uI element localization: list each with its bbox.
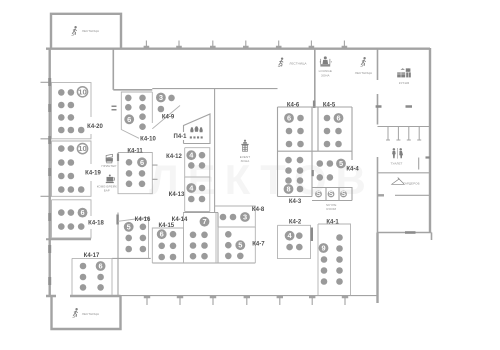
badge 3 K4-9	[156, 93, 166, 103]
label K4-12	[166, 154, 182, 160]
label K4-14	[172, 217, 188, 223]
svg-text:S: S	[341, 189, 346, 198]
hanger icon	[392, 178, 405, 184]
label skype room	[326, 203, 337, 211]
svg-text:К4-13: К4-13	[169, 192, 185, 198]
kitchen icon	[397, 68, 411, 77]
label K4-20	[87, 124, 103, 130]
label K4-18	[88, 220, 104, 226]
svg-text:ЗОНА: ЗОНА	[321, 73, 330, 77]
badge 6 K4-5	[334, 113, 344, 123]
label coffee bar	[97, 185, 117, 193]
room K4-6/K4-5/K4-3/K4-4 walls	[278, 107, 353, 201]
desk block K4-18	[52, 200, 92, 238]
wall wing left x377	[377, 48, 379, 303]
printer icon	[106, 154, 113, 163]
label K4-5	[323, 103, 336, 109]
desk block K4-1	[318, 224, 351, 295]
stairs icon hall 2	[360, 57, 365, 66]
desk block K4-16	[118, 217, 149, 258]
svg-text:5: 5	[127, 222, 131, 231]
wall corridor vertical x113	[112, 48, 114, 90]
badge 5 K4-7	[235, 240, 245, 250]
window ticks bottom wall	[144, 296, 348, 305]
svg-text:К4-5: К4-5	[323, 103, 336, 109]
desk block K4-17	[72, 258, 112, 295]
svg-text:БАР: БАР	[104, 189, 110, 193]
desk block K4-6 dots	[286, 115, 304, 148]
event zone icon	[241, 140, 248, 152]
badge 6 K4-6	[284, 113, 294, 123]
desk block K4-19	[52, 141, 92, 196]
svg-text:3: 3	[159, 93, 163, 102]
label K4-3	[289, 199, 302, 205]
svg-text:5: 5	[339, 159, 343, 168]
label toilet	[390, 161, 402, 165]
door marks near K4-20	[112, 106, 117, 110]
wall outer right	[429, 48, 431, 233]
skype badge S1	[315, 189, 322, 198]
badge 9 K4-1	[319, 243, 329, 253]
P4-1 seat squares	[190, 136, 203, 138]
wall x118 with door stub	[117, 213, 119, 296]
skype badge S3	[340, 189, 347, 198]
label lestnica top-left	[82, 29, 99, 33]
label K4-11	[127, 149, 143, 155]
coffee bar icon	[106, 175, 115, 184]
room stairs top-left outline	[51, 14, 121, 48]
label lestnica hall 1	[289, 62, 306, 66]
label K4-9	[162, 114, 175, 120]
svg-text:ЛЕСТНИЦА: ЛЕСТНИЦА	[289, 62, 306, 66]
label lestnica hall 2	[355, 71, 372, 75]
svg-text:6: 6	[80, 208, 84, 217]
desk block K4-4 dots	[317, 160, 334, 181]
desk block K4-5 dots	[324, 115, 342, 148]
svg-text:9: 9	[321, 244, 325, 253]
badge 4 K4-12	[186, 150, 196, 160]
desk block K4-14	[184, 213, 217, 264]
svg-text:К4-8: К4-8	[252, 207, 265, 213]
svg-text:6: 6	[127, 115, 131, 124]
wall event zone vertical x214.6	[214, 89, 216, 213]
label cloakroom	[403, 182, 419, 186]
desk block K4-15	[152, 228, 183, 263]
svg-text:6: 6	[140, 158, 144, 167]
P4-1 room outline	[184, 114, 211, 144]
svg-text:К4-19: К4-19	[85, 171, 101, 177]
label K4-17	[84, 253, 100, 259]
label lounge zone	[319, 69, 332, 77]
label P4-1	[174, 134, 188, 140]
svg-text:6: 6	[160, 230, 164, 239]
wall corridor x314	[313, 48, 316, 108]
wall y263	[152, 262, 255, 264]
desk block K4-8	[215, 206, 256, 227]
label kitchen	[399, 81, 410, 85]
svg-text:К4-2: К4-2	[289, 220, 302, 226]
svg-text:К4-9: К4-9	[162, 114, 175, 120]
desk block K4-3 dots	[285, 157, 303, 193]
wall outer left	[49, 48, 51, 296]
label K4-2	[289, 220, 302, 226]
svg-text:К4-17: К4-17	[84, 253, 100, 259]
P4-1 people icon	[190, 126, 203, 132]
badge 7 K4-14	[200, 217, 210, 227]
label K4-13	[169, 192, 185, 198]
kitchen wall stubs y106.5	[376, 105, 412, 108]
wc man and woman icons	[392, 148, 403, 159]
svg-text:К4-18: К4-18	[88, 220, 104, 226]
svg-text:5: 5	[238, 241, 242, 250]
svg-text:К4-7: К4-7	[252, 242, 265, 248]
wall cloakroom bottom y195.3	[378, 194, 431, 196]
svg-text:6: 6	[336, 114, 340, 123]
svg-text:К4-10: К4-10	[140, 137, 156, 143]
svg-text:ТУАЛЕТ: ТУАЛЕТ	[390, 161, 402, 165]
badge 5 K4-16	[124, 222, 134, 232]
svg-text:S: S	[316, 189, 321, 198]
lounge zone icon	[320, 56, 332, 66]
wall bottom thick	[46, 295, 121, 297]
svg-text:S: S	[329, 189, 334, 198]
toilet door	[419, 158, 430, 170]
skype room partitions	[326, 188, 339, 201]
desk block K4-9	[152, 95, 180, 129]
desk block K4-10	[121, 92, 152, 138]
label K4-19	[85, 171, 101, 177]
wall y258.4	[112, 257, 151, 259]
svg-text:ROOM: ROOM	[326, 207, 336, 211]
label K4-10	[140, 137, 156, 143]
label printer	[101, 164, 116, 168]
wall bottom thin y295.5	[121, 295, 378, 297]
svg-text:К4-1: К4-1	[326, 220, 339, 226]
wall main top	[46, 48, 430, 50]
svg-text:К4-12: К4-12	[166, 154, 182, 160]
label event zone	[240, 155, 251, 163]
room stairs bottom-left outline	[52, 296, 121, 329]
skype badge S2	[328, 189, 335, 198]
label lestnica bottom-left	[82, 312, 99, 316]
svg-text:К4-20: К4-20	[87, 124, 103, 130]
svg-text:П4-1: П4-1	[174, 134, 188, 140]
desk block K4-12	[185, 148, 210, 177]
desk block K4-20	[52, 83, 92, 139]
stairs icon bottom-left	[72, 308, 77, 317]
svg-text:К4-4: К4-4	[346, 167, 359, 173]
badge 3 K4-8	[240, 212, 250, 222]
svg-text:7: 7	[202, 217, 206, 226]
label K4-7	[252, 242, 265, 248]
wall y212.5	[183, 212, 218, 214]
window ticks top wall	[144, 41, 348, 49]
desk block K4-11	[118, 153, 158, 194]
svg-text:ЛЕСТНИЦА: ЛЕСТНИЦА	[355, 71, 372, 75]
label K4-1	[326, 220, 339, 226]
svg-text:ЛЕСТНИЦА: ЛЕСТНИЦА	[82, 312, 99, 316]
svg-text:ЛЕСТНИЦА: ЛЕСТНИЦА	[82, 29, 99, 33]
svg-text:КУХНЯ: КУХНЯ	[399, 81, 410, 85]
badge 6 K4-11	[137, 157, 147, 167]
desk block K4-7	[218, 227, 255, 263]
svg-text:ПРИНТЕР: ПРИНТЕР	[101, 164, 116, 168]
svg-text:ГАРДЕРОБ: ГАРДЕРОБ	[403, 182, 419, 186]
wall toilet top y126.5	[378, 126, 431, 128]
svg-text:ЗОНА: ЗОНА	[241, 159, 250, 163]
badge 10 K4-20	[77, 87, 87, 97]
svg-text:К4-11: К4-11	[127, 149, 143, 155]
badge 6 K4-17	[96, 261, 106, 271]
watermark	[149, 156, 375, 203]
wall corridor y90	[113, 89, 277, 90]
wall bottom-right thick x377	[376, 233, 378, 304]
svg-text:К4-3: К4-3	[289, 199, 302, 205]
toilet stall partitions	[386, 127, 421, 141]
badge 6 K4-10	[124, 114, 134, 124]
svg-text:6: 6	[287, 114, 291, 123]
svg-text:10: 10	[78, 87, 86, 96]
desk block K4-2	[278, 225, 312, 258]
svg-text:10: 10	[78, 144, 86, 153]
wall wing bottom y232	[378, 233, 432, 241]
badge 6 K4-18	[78, 208, 88, 218]
badge 6 K4-15	[157, 229, 167, 239]
svg-text:К4-14: К4-14	[172, 217, 188, 223]
svg-text:К4-16: К4-16	[135, 217, 151, 223]
svg-text:К4-6: К4-6	[287, 103, 300, 109]
badge 8 K4-3	[284, 184, 294, 194]
left wall cross stubs	[41, 82, 52, 196]
label K4-8	[252, 207, 265, 213]
label K4-6	[287, 103, 300, 109]
label K4-4	[346, 167, 359, 173]
svg-text:6: 6	[99, 262, 103, 271]
desk block K4-13	[185, 177, 210, 212]
badge 10 K4-19	[77, 144, 87, 154]
stairs icon hall 1	[278, 58, 283, 67]
svg-text:3: 3	[243, 213, 247, 222]
badge 4 K4-2	[285, 231, 295, 241]
svg-text:8: 8	[286, 185, 290, 194]
badge 4 K4-13	[186, 183, 196, 193]
wall cloakroom top y172.8	[378, 172, 431, 174]
wall piers on left wall	[48, 78, 51, 285]
label K4-16	[135, 217, 151, 223]
wall x218	[217, 213, 219, 264]
wall K4-18 bottom thick	[46, 238, 91, 240]
label K4-15	[158, 223, 174, 229]
badge 5 K4-4	[336, 159, 346, 169]
svg-text:К4-15: К4-15	[158, 223, 174, 229]
stairs icon top-left	[71, 26, 76, 35]
